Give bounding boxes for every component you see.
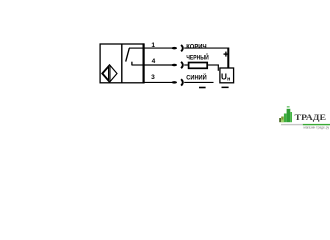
pin 1 wire end dot — [172, 47, 177, 50]
fixed contact stub (pin 4, inside box) — [132, 64, 144, 66]
fixed contact end tick — [131, 62, 133, 66]
inner triangle outline (left half of rhombus) — [103, 67, 109, 80]
proximity-sensor symbol (rhombus) — [102, 65, 117, 82]
svg-text:СИНИЙ: СИНИЙ — [186, 72, 207, 81]
svg-text:1: 1 — [151, 42, 155, 49]
sensor body right edge (thick) — [143, 43, 145, 83]
svg-text:ЧЕРНЫЙ: ЧЕРНЫЙ — [186, 52, 209, 61]
supply bus (plus rail) — [227, 48, 229, 69]
pin 4 connector chevron — [181, 62, 183, 68]
svg-text:магазин траде.ру: магазин траде.ру — [304, 126, 330, 130]
pin 3 wire end dot — [172, 81, 177, 84]
watermark underline right (green) — [303, 124, 330, 125]
rhombus center line — [109, 65, 111, 82]
svg-text:КОРИЧ.: КОРИЧ. — [186, 43, 208, 50]
switch output line to box edge — [129, 47, 144, 49]
pin 3 wire (blue) — [144, 81, 214, 83]
supply source Un box — [220, 68, 234, 83]
pin 3 connector chevron — [181, 79, 183, 85]
svg-text:3: 3 — [151, 74, 155, 81]
pin 1 connector chevron — [181, 45, 183, 51]
svg-text:ТРАДЕ: ТРАДЕ — [295, 113, 327, 122]
pin 4 wire end dot — [172, 64, 177, 67]
load resistor RL — [189, 63, 208, 69]
switch contact (arm) — [126, 48, 130, 61]
minus sign (blue wire) — [199, 87, 206, 89]
compartment divider — [121, 44, 123, 83]
svg-text:н: н — [227, 76, 230, 82]
wire resistor to corner — [207, 64, 219, 66]
pin 1 wire (brown) — [144, 47, 229, 49]
watermark underline left (gray) — [281, 124, 303, 125]
svg-text:U: U — [221, 72, 227, 81]
pin 4 wire (black) — [144, 64, 189, 66]
svg-text:4: 4 — [152, 58, 156, 65]
minus sign (under Un box) — [222, 87, 229, 89]
plus sign — [224, 52, 229, 57]
sensor body U1 (outer rectangle) — [100, 43, 144, 83]
watermark logo: green bar chart — [279, 106, 292, 122]
wire down from resistor to Un box — [217, 65, 219, 71]
